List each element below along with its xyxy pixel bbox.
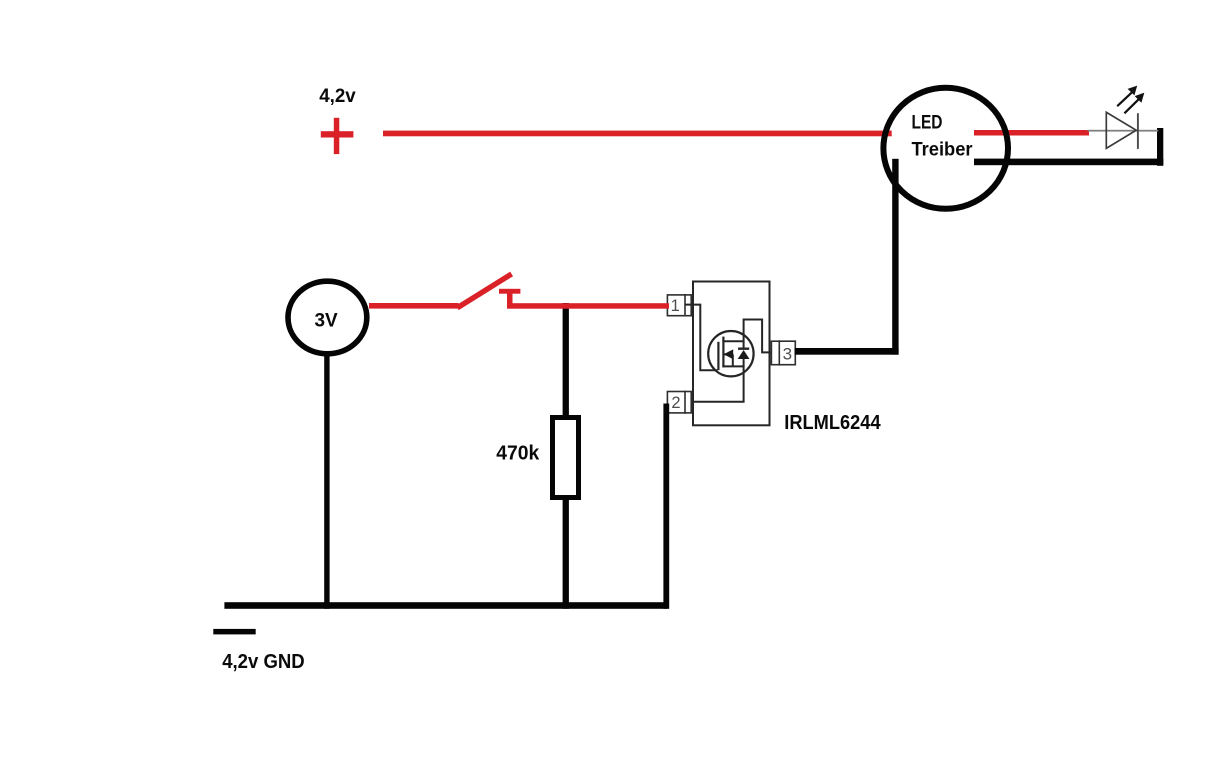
battery positive terminal xyxy=(321,118,354,154)
transistor U1 package outline xyxy=(693,282,770,426)
wire 3V to switch xyxy=(369,303,459,309)
wire switch to pin1 xyxy=(507,303,669,309)
source link wire xyxy=(692,366,744,401)
svg-text:1: 1 xyxy=(671,297,680,315)
drain link wire xyxy=(722,320,771,353)
wire driver output horizontal xyxy=(795,348,899,355)
svg-text:3: 3 xyxy=(783,345,792,364)
wire LED return vertical xyxy=(1157,128,1163,166)
svg-text:Treiber: Treiber xyxy=(912,139,973,161)
wire LED return horizontal xyxy=(974,159,1163,166)
pin 3 box xyxy=(771,340,795,365)
LED D1 xyxy=(1106,112,1138,149)
wire ground bus xyxy=(224,602,667,609)
wire 4.2v supply to driver xyxy=(383,131,892,137)
ground symbol xyxy=(213,629,255,635)
LED driver circle xyxy=(883,88,1008,209)
body diode xyxy=(738,341,750,366)
gate lead wire xyxy=(685,305,718,371)
switch S1 xyxy=(457,274,520,309)
svg-text:IRLML6244: IRLML6244 xyxy=(784,411,881,434)
wire LED anode thin xyxy=(1088,130,1159,132)
LED arrow 1 xyxy=(1117,86,1137,107)
svg-text:4,2v GND: 4,2v GND xyxy=(222,650,305,673)
mosfet circle xyxy=(708,331,753,376)
LED arrow 2 xyxy=(1124,93,1144,114)
wire 3V to ground xyxy=(324,355,329,609)
pin 2 box xyxy=(667,391,691,414)
wire gate pulldown vertical xyxy=(563,303,569,416)
svg-text:LED: LED xyxy=(912,112,943,134)
wire pin2 to ground xyxy=(663,404,669,609)
svg-text:4,2v: 4,2v xyxy=(319,86,356,107)
svg-text:2: 2 xyxy=(671,394,680,412)
svg-text:3V: 3V xyxy=(315,309,338,331)
battery 3V xyxy=(288,281,367,354)
wire driver to LED anode xyxy=(974,130,1089,136)
pin 1 box xyxy=(667,294,691,317)
wire driver output vertical xyxy=(892,159,898,355)
resistor R1 xyxy=(553,418,579,498)
substrate arrow xyxy=(723,349,733,366)
wire resistor to ground xyxy=(563,500,569,609)
channel bar xyxy=(722,337,724,368)
svg-text:470k: 470k xyxy=(496,443,540,465)
gate bar xyxy=(717,342,719,370)
